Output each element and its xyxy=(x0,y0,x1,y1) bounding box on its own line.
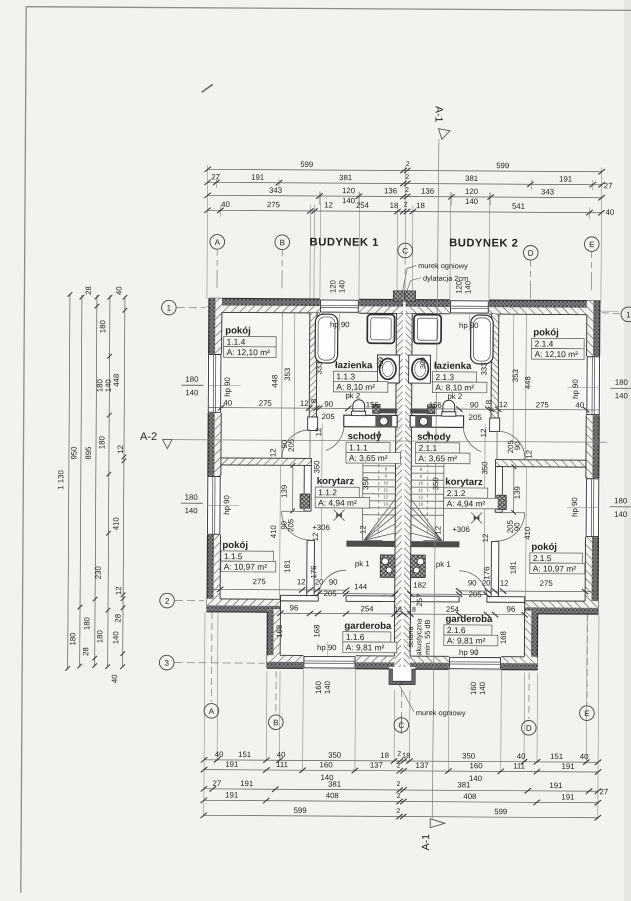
small dimension texts right unit xyxy=(408,321,585,658)
dim line vertical 448 xyxy=(280,313,283,458)
svg-text:350: 350 xyxy=(480,461,489,475)
svg-text:2.1.1: 2.1.1 xyxy=(418,443,437,453)
svg-text:410: 410 xyxy=(523,526,532,540)
door arc garderoba xyxy=(318,570,346,598)
svg-text:90: 90 xyxy=(329,578,338,587)
firewall block top xyxy=(393,291,404,301)
svg-text:1.1.2: 1.1.2 xyxy=(318,487,337,497)
svg-text:205: 205 xyxy=(322,412,336,421)
svg-text:pokój: pokój xyxy=(222,540,248,551)
svg-text:A: 3,65 m²: A: 3,65 m² xyxy=(349,453,388,463)
svg-text:599: 599 xyxy=(300,160,313,169)
svg-text:1.1.4: 1.1.4 xyxy=(227,337,246,347)
svg-text:12: 12 xyxy=(479,429,488,438)
svg-text:343: 343 xyxy=(541,187,554,196)
svg-text:łazienka: łazienka xyxy=(335,360,373,371)
svg-text:12: 12 xyxy=(324,201,333,210)
svg-text:90: 90 xyxy=(470,400,479,409)
window ref line garderoba xyxy=(327,642,329,656)
svg-text:18: 18 xyxy=(390,201,399,210)
svg-text:A: A xyxy=(209,707,215,716)
svg-text:12: 12 xyxy=(311,533,320,542)
svg-text:27: 27 xyxy=(212,779,221,788)
svg-text:A: 9,81 m²: A: 9,81 m² xyxy=(346,642,385,652)
svg-text:140: 140 xyxy=(469,774,483,783)
window size labels 160/140 bottom xyxy=(314,680,487,695)
svg-text:140: 140 xyxy=(615,391,629,400)
svg-text:18: 18 xyxy=(402,751,411,760)
svg-text:dylatacja 2cm: dylatacja 2cm xyxy=(423,274,468,283)
dim line vertical 410 xyxy=(279,465,282,599)
svg-text:1: 1 xyxy=(626,310,631,319)
svg-text:garderoba: garderoba xyxy=(344,621,392,632)
svg-text:11: 11 xyxy=(419,488,424,493)
svg-text:garderoba: garderoba xyxy=(445,614,493,625)
svg-text:A: A xyxy=(215,238,221,247)
grid circle 1 right xyxy=(621,307,631,322)
svg-text:205: 205 xyxy=(286,518,295,532)
level mark cross xyxy=(471,512,482,523)
svg-text:pk 2: pk 2 xyxy=(447,392,462,401)
svg-text:139: 139 xyxy=(280,485,289,498)
wall pokój 1.1.5 / korytarz xyxy=(304,465,311,511)
window size labels 180/140 left wall xyxy=(181,375,631,519)
svg-text:korytarz: korytarz xyxy=(317,476,355,487)
svg-text:pokój: pokój xyxy=(531,542,557,553)
svg-text:275: 275 xyxy=(536,400,550,409)
svg-text:180: 180 xyxy=(82,616,91,630)
partition wall pokój/łazienka xyxy=(309,313,317,417)
svg-text:13: 13 xyxy=(418,502,423,507)
svg-text:3: 3 xyxy=(164,659,169,668)
svg-text:A: 10,97 m²: A: 10,97 m² xyxy=(533,563,577,573)
svg-text:12: 12 xyxy=(383,494,388,499)
svg-text:hp 90: hp 90 xyxy=(459,321,479,330)
svg-text:350: 350 xyxy=(328,751,342,760)
svg-text:275: 275 xyxy=(253,577,267,586)
washbasin xyxy=(377,355,399,383)
svg-text:A-1: A-1 xyxy=(433,106,445,123)
top dimension block xyxy=(204,159,616,303)
svg-text:2.1.4: 2.1.4 xyxy=(535,339,554,349)
wall pokój 1.1.5 / pk1 xyxy=(307,540,315,601)
dim line garderoba top xyxy=(280,612,403,615)
svg-text:hp 90: hp 90 xyxy=(223,376,232,396)
firewall foot bottom xyxy=(389,667,403,685)
window size labels 120/140 top xyxy=(328,279,472,294)
window ref line top xyxy=(338,313,340,330)
svg-text:hp 90: hp 90 xyxy=(570,497,579,517)
svg-text:180: 180 xyxy=(185,375,199,384)
svg-text:2: 2 xyxy=(406,161,410,168)
svg-text:176: 176 xyxy=(482,566,491,579)
svg-text:2: 2 xyxy=(396,808,400,815)
svg-text:pk 1: pk 1 xyxy=(436,560,451,569)
svg-text:343: 343 xyxy=(269,186,282,195)
svg-text:2.1.6: 2.1.6 xyxy=(447,625,466,635)
page border top xyxy=(26,7,631,11)
svg-text:205: 205 xyxy=(324,589,338,598)
section line A-1 xyxy=(432,139,439,818)
grid circles top A-E xyxy=(159,234,631,735)
svg-text:28: 28 xyxy=(113,614,122,623)
svg-text:140: 140 xyxy=(342,196,356,205)
svg-text:40: 40 xyxy=(575,401,584,410)
door arc pokój 1.1.4 xyxy=(282,430,310,458)
svg-text:hp 90: hp 90 xyxy=(571,379,580,399)
svg-text:448: 448 xyxy=(112,374,121,387)
svg-text:136: 136 xyxy=(384,186,397,195)
svg-text:A: 12,10 m²: A: 12,10 m² xyxy=(227,347,271,357)
svg-text:8: 8 xyxy=(309,399,318,403)
window ref line pokój 1.1.5 xyxy=(208,504,240,506)
svg-text:12: 12 xyxy=(358,525,367,534)
svg-text:2.1.5: 2.1.5 xyxy=(533,553,552,563)
washer counter xyxy=(344,415,397,427)
svg-text:160: 160 xyxy=(469,681,478,695)
svg-text:140: 140 xyxy=(465,197,479,206)
window 160x140 garderoba xyxy=(303,655,355,670)
svg-text:191: 191 xyxy=(240,779,253,788)
svg-text:hp 90: hp 90 xyxy=(317,643,337,652)
svg-text:180: 180 xyxy=(185,493,199,502)
stair step numbers xyxy=(383,466,424,506)
svg-text:+306: +306 xyxy=(452,525,470,534)
bathtub xyxy=(315,314,338,363)
svg-text:40: 40 xyxy=(580,752,589,761)
garderoba wing west wall xyxy=(267,609,280,668)
svg-text:136: 136 xyxy=(421,187,434,196)
svg-text:381: 381 xyxy=(465,174,478,183)
svg-text:12: 12 xyxy=(481,534,490,543)
svg-text:27: 27 xyxy=(600,787,609,796)
section triangle top xyxy=(438,129,450,140)
section triangle A-2 xyxy=(163,440,173,449)
svg-text:12: 12 xyxy=(314,428,323,437)
window ref line pokój 1.1.4 xyxy=(208,384,240,386)
svg-text:90: 90 xyxy=(468,578,477,587)
svg-text:205: 205 xyxy=(469,590,483,599)
svg-text:1.1.5: 1.1.5 xyxy=(224,551,243,561)
svg-text:160: 160 xyxy=(320,760,334,769)
svg-text:12: 12 xyxy=(297,577,306,586)
svg-text:168: 168 xyxy=(499,631,508,644)
svg-text:A: 9,81 m²: A: 9,81 m² xyxy=(447,635,486,645)
svg-text:139: 139 xyxy=(513,486,522,499)
appliance square at top xyxy=(367,314,394,343)
stairs schody xyxy=(362,464,395,541)
exterior top wall xyxy=(209,298,405,313)
svg-text:180: 180 xyxy=(68,632,77,646)
dim line vertical 350 korytarz xyxy=(320,424,323,580)
svg-text:176: 176 xyxy=(309,565,318,578)
svg-text:A: 4,94 m²: A: 4,94 m² xyxy=(447,498,486,508)
svg-text:schody: schody xyxy=(417,432,451,443)
svg-text:13: 13 xyxy=(383,501,388,506)
svg-text:2: 2 xyxy=(397,750,401,757)
svg-text:D: D xyxy=(528,249,534,258)
svg-text:12: 12 xyxy=(524,450,533,459)
svg-text:2: 2 xyxy=(397,793,401,800)
svg-text:120: 120 xyxy=(328,279,337,293)
svg-text:E: E xyxy=(584,709,589,718)
grid line 1 across xyxy=(206,307,619,312)
svg-text:schody: schody xyxy=(348,431,382,442)
svg-text:254: 254 xyxy=(360,604,374,613)
svg-text:181: 181 xyxy=(509,561,518,574)
svg-text:1.1.6: 1.1.6 xyxy=(346,632,365,642)
svg-text:korytarz: korytarz xyxy=(445,477,483,488)
svg-text:BUDYNEK 2: BUDYNEK 2 xyxy=(449,237,518,249)
svg-text:A-2: A-2 xyxy=(140,431,157,443)
svg-text:27: 27 xyxy=(211,172,220,181)
svg-text:350: 350 xyxy=(462,751,476,760)
door jamb pokój 1.1.4 xyxy=(308,417,318,431)
svg-text:12: 12 xyxy=(433,526,442,535)
dim line pokój 1.1.5 row xyxy=(207,588,347,591)
stray scan mark xyxy=(202,84,213,92)
svg-text:12: 12 xyxy=(300,399,309,408)
svg-text:140: 140 xyxy=(323,680,332,694)
svg-text:448: 448 xyxy=(523,376,532,389)
window 120x140 top (łazienka) xyxy=(320,298,359,314)
svg-text:96: 96 xyxy=(290,603,299,612)
small dimension texts left unit xyxy=(221,319,404,652)
svg-text:40: 40 xyxy=(110,674,119,683)
svg-text:A: 10,97 m²: A: 10,97 m² xyxy=(224,562,268,572)
svg-text:140: 140 xyxy=(185,506,199,515)
svg-text:+306: +306 xyxy=(312,523,330,532)
grid circles left 1 2 3 xyxy=(162,300,177,315)
svg-text:40: 40 xyxy=(223,398,232,407)
svg-text:10: 10 xyxy=(418,481,423,486)
svg-text:łazienka: łazienka xyxy=(434,361,472,372)
svg-text:12: 12 xyxy=(499,400,508,409)
svg-text:151: 151 xyxy=(238,750,251,759)
dim line pokój 1.1.4 row xyxy=(208,408,397,409)
svg-text:140: 140 xyxy=(478,681,487,695)
section triangle bottom xyxy=(430,819,445,828)
dim line vertical 139 xyxy=(292,465,294,511)
svg-text:A: 12,10 m²: A: 12,10 m² xyxy=(535,349,579,359)
stair walk line xyxy=(377,434,380,538)
svg-text:381: 381 xyxy=(339,173,352,182)
svg-text:448: 448 xyxy=(270,375,279,388)
window 180x140 left wall y=477 xyxy=(206,476,222,535)
svg-text:111: 111 xyxy=(276,760,288,769)
garderoba wing bottom wall xyxy=(267,655,403,669)
svg-text:333: 333 xyxy=(479,362,488,375)
svg-text:180: 180 xyxy=(615,378,629,387)
svg-text:599: 599 xyxy=(496,161,509,170)
svg-text:pk 2: pk 2 xyxy=(345,391,360,400)
svg-text:191: 191 xyxy=(561,792,574,801)
svg-text:1.1.1: 1.1.1 xyxy=(349,442,368,452)
pk 1 plumbing shaft xyxy=(380,555,395,578)
svg-text:120: 120 xyxy=(342,186,356,195)
svg-text:350: 350 xyxy=(361,476,370,490)
section line A-2 xyxy=(172,440,607,443)
dim line pk1 xyxy=(319,593,395,595)
svg-text:191: 191 xyxy=(562,762,575,771)
svg-text:410: 410 xyxy=(112,517,121,531)
svg-text:A: 4,94 m²: A: 4,94 m² xyxy=(318,498,357,508)
exterior left wall xyxy=(207,298,222,612)
svg-text:1: 1 xyxy=(167,304,172,313)
svg-text:950: 950 xyxy=(69,446,78,460)
svg-text:28: 28 xyxy=(84,286,93,295)
svg-text:168: 168 xyxy=(312,624,321,637)
window 180x140 left wall y=355 xyxy=(207,354,223,413)
svg-text:254: 254 xyxy=(356,201,370,210)
toilet pk2 xyxy=(353,400,365,412)
svg-text:B: B xyxy=(273,718,278,727)
svg-text:2.1.2: 2.1.2 xyxy=(447,488,466,498)
svg-text:12: 12 xyxy=(418,495,423,500)
svg-text:11: 11 xyxy=(384,487,389,492)
svg-text:168: 168 xyxy=(275,625,284,638)
svg-text:1 130: 1 130 xyxy=(56,469,65,489)
wall pk1 / garderoba xyxy=(280,595,318,601)
svg-text:180: 180 xyxy=(97,435,106,449)
svg-text:599: 599 xyxy=(494,807,507,816)
building unit geometry (left half, mirrored for right) xyxy=(205,290,406,685)
svg-text:140: 140 xyxy=(614,510,628,519)
svg-text:205: 205 xyxy=(506,439,515,453)
grid circles bottom A-E xyxy=(204,704,219,719)
wall schody / pk1 xyxy=(346,541,395,547)
svg-text:137: 137 xyxy=(416,761,429,770)
svg-text:28: 28 xyxy=(81,647,90,656)
svg-text:2.1.3: 2.1.3 xyxy=(435,372,454,382)
svg-text:191: 191 xyxy=(225,790,238,799)
svg-text:254: 254 xyxy=(446,605,460,614)
svg-text:40: 40 xyxy=(221,200,230,209)
svg-text:2: 2 xyxy=(165,597,170,606)
svg-text:205: 205 xyxy=(469,413,483,422)
svg-text:180: 180 xyxy=(95,629,104,643)
svg-text:18: 18 xyxy=(380,751,389,760)
svg-text:40: 40 xyxy=(606,208,615,217)
svg-text:D: D xyxy=(526,724,532,733)
svg-text:hp 90: hp 90 xyxy=(222,494,231,514)
svg-text:40: 40 xyxy=(215,750,224,759)
page border left xyxy=(21,7,26,893)
svg-text:111: 111 xyxy=(513,761,525,770)
svg-text:90: 90 xyxy=(324,400,333,409)
łazienka south wall xyxy=(376,409,397,414)
svg-text:40: 40 xyxy=(114,286,123,295)
svg-text:pk 1: pk 1 xyxy=(355,559,370,568)
svg-text:381: 381 xyxy=(328,780,341,789)
svg-text:12: 12 xyxy=(114,586,123,595)
svg-text:1.1.3: 1.1.3 xyxy=(336,371,355,381)
svg-text:min. 55 dB: min. 55 dB xyxy=(423,619,432,654)
svg-text:hp 90: hp 90 xyxy=(459,648,479,657)
door arc pokój 1.1.5 xyxy=(281,511,310,540)
svg-text:182: 182 xyxy=(413,581,426,590)
svg-text:408: 408 xyxy=(463,792,476,801)
svg-text:160: 160 xyxy=(470,761,484,770)
svg-text:B: B xyxy=(280,238,285,247)
svg-text:2: 2 xyxy=(397,762,401,769)
svg-text:A-1: A-1 xyxy=(420,834,432,851)
svg-text:181: 181 xyxy=(283,560,292,573)
svg-text:275: 275 xyxy=(540,579,554,588)
svg-text:murek ogniowy: murek ogniowy xyxy=(416,708,466,717)
svg-text:160: 160 xyxy=(314,680,323,694)
svg-text:12: 12 xyxy=(500,579,509,588)
svg-text:410: 410 xyxy=(269,525,278,539)
svg-text:275: 275 xyxy=(267,200,281,209)
svg-text:191: 191 xyxy=(225,760,238,769)
svg-text:353: 353 xyxy=(283,368,292,381)
pillar at korytarz door xyxy=(300,494,310,508)
svg-text:140: 140 xyxy=(111,631,120,645)
svg-text:350: 350 xyxy=(431,477,440,491)
svg-text:205: 205 xyxy=(287,438,296,452)
svg-text:309: 309 xyxy=(420,357,427,369)
svg-text:191: 191 xyxy=(559,174,572,183)
svg-text:381: 381 xyxy=(457,780,470,789)
svg-text:120: 120 xyxy=(465,187,479,196)
svg-text:140: 140 xyxy=(185,388,199,397)
svg-text:2: 2 xyxy=(404,202,408,209)
svg-text:257: 257 xyxy=(415,594,424,607)
svg-text:353: 353 xyxy=(511,369,520,382)
svg-text:180: 180 xyxy=(98,319,107,333)
svg-text:144: 144 xyxy=(354,582,368,591)
svg-text:140: 140 xyxy=(337,279,346,293)
svg-text:275: 275 xyxy=(259,399,273,408)
svg-text:40: 40 xyxy=(277,750,286,759)
center party wall xyxy=(394,313,404,669)
svg-text:BUDYNEK 1: BUDYNEK 1 xyxy=(310,236,379,248)
svg-text:156: 156 xyxy=(429,401,442,410)
svg-text:205: 205 xyxy=(506,519,515,533)
svg-text:E: E xyxy=(589,240,594,249)
svg-text:541: 541 xyxy=(512,202,525,211)
wall between pokój 1.1.4 / 1.1.5 xyxy=(221,458,311,466)
svg-text:180: 180 xyxy=(614,496,628,505)
svg-text:191: 191 xyxy=(549,781,562,790)
svg-text:18: 18 xyxy=(408,607,416,614)
svg-text:156: 156 xyxy=(366,400,379,409)
svg-text:27: 27 xyxy=(604,181,613,190)
svg-text:151: 151 xyxy=(550,752,563,761)
svg-text:309: 309 xyxy=(378,357,385,369)
level mark cross xyxy=(334,510,345,521)
svg-text:18: 18 xyxy=(416,201,425,210)
svg-text:2: 2 xyxy=(397,781,401,788)
svg-text:40: 40 xyxy=(517,752,526,761)
svg-text:350: 350 xyxy=(312,460,321,474)
svg-text:599: 599 xyxy=(294,806,307,815)
svg-text:96: 96 xyxy=(507,605,516,614)
svg-text:pokój: pokój xyxy=(225,325,251,336)
svg-text:895: 895 xyxy=(84,446,93,460)
left dimension block xyxy=(55,285,127,683)
svg-text:C: C xyxy=(402,247,408,256)
svg-text:137: 137 xyxy=(370,761,383,770)
svg-text:A: 3,65 m²: A: 3,65 m² xyxy=(418,453,457,463)
svg-text:333: 333 xyxy=(314,361,323,374)
door arc hall/łazienka xyxy=(326,425,344,451)
svg-text:murek ogniowy: murek ogniowy xyxy=(418,261,468,270)
building interior fill xyxy=(207,298,405,613)
svg-text:2: 2 xyxy=(405,174,409,181)
svg-text:hp 90: hp 90 xyxy=(330,320,350,329)
